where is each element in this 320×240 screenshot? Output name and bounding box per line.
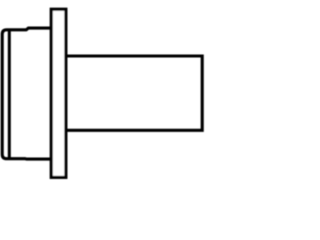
barrel body (right rectangle) (66, 56, 202, 130)
head outline (left body with stepped top edge) (2, 28, 51, 159)
head inner silhouette line (8, 29, 11, 159)
flange (tall narrow rectangle) (51, 9, 66, 177)
